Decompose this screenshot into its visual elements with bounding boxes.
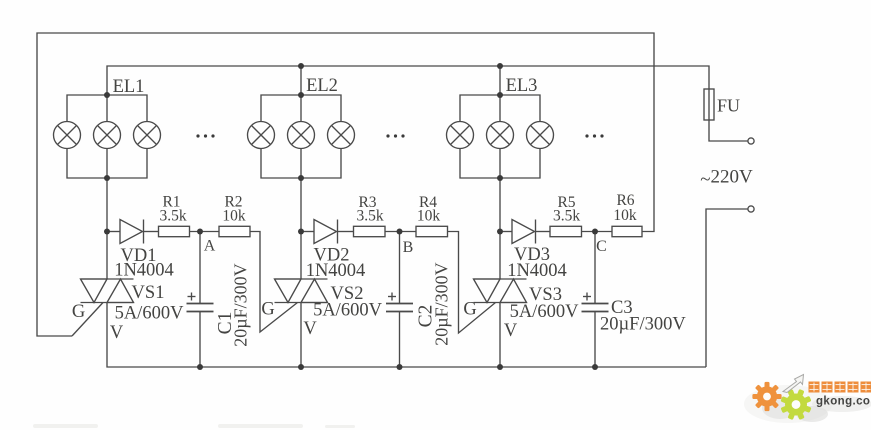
node B junction (397, 229, 403, 235)
svg-text:gkong.com: gkong.com (816, 396, 871, 408)
wire VS1 gate diagonal (72, 303, 103, 337)
wire R5 to node C (582, 231, 613, 233)
lamp group EL3 top bus (460, 95, 540, 122)
svg-text:5A/600V: 5A/600V (510, 302, 580, 322)
triac VS1 (81, 278, 134, 280)
svg-text:1N4004: 1N4004 (114, 261, 174, 281)
wire EL3 feed (499, 66, 501, 122)
junction EL3 feed (497, 63, 503, 69)
junction VS2 rail (298, 364, 304, 370)
lamp EL1a (54, 122, 81, 149)
dots after EL2 (386, 134, 389, 137)
wire VS3 to rail (499, 303, 501, 368)
wire inner top feed (107, 66, 709, 95)
node C junction (592, 229, 598, 235)
resistor R2 (219, 226, 250, 236)
lamp EL3a (447, 122, 474, 149)
lamp EL3c (527, 122, 554, 149)
svg-text:5A/600V: 5A/600V (115, 304, 185, 324)
junction C2 bottom (397, 364, 403, 370)
wire EL1 vertical upper (106, 95, 108, 122)
svg-text:V: V (303, 319, 317, 339)
lamp group EL2 top bus (261, 95, 341, 122)
wire R2 output to VS2 gate (250, 232, 298, 333)
junction VS3 rail (497, 364, 503, 370)
svg-text:C: C (596, 238, 607, 255)
resistor R4 (416, 226, 448, 236)
svg-text:G: G (261, 300, 274, 320)
junction C1 bottom (197, 364, 203, 370)
lamp EL1c (134, 122, 161, 149)
dots after EL1 (196, 134, 199, 137)
diode VD1 (120, 220, 143, 244)
capacitor C2 (399, 232, 401, 304)
junction EL3 top (497, 92, 503, 98)
junction EL1 bottom (104, 175, 110, 181)
junction EL2 top (298, 92, 304, 98)
wire branch 1 (107, 231, 120, 233)
svg-text:1N4004: 1N4004 (306, 261, 366, 281)
resistor R3 (354, 226, 386, 236)
junction branch 2 (298, 229, 304, 235)
fuse FU (704, 89, 714, 120)
lamp EL2b (288, 122, 315, 149)
wire R4 output to VS3 gate (448, 232, 496, 334)
triac VS3 (474, 278, 527, 280)
lamp group EL2 bottom bus (261, 149, 341, 179)
svg-text:20µF/300V: 20µF/300V (600, 315, 686, 335)
lamp EL3b (487, 122, 514, 149)
lamp group EL1 bottom bus (67, 149, 147, 179)
resistor R6 (612, 226, 642, 236)
lamp group EL1 top bus (67, 95, 147, 122)
capacitor C1 (199, 232, 201, 304)
wire VS2 to rail (300, 303, 302, 368)
svg-text:G: G (72, 302, 85, 322)
wire lower terminal return (706, 209, 748, 367)
wire branch 3 (500, 231, 512, 233)
wire EL3 vertical to triac VS3 (499, 149, 501, 280)
lamp group EL3 bottom bus (460, 149, 540, 179)
junction EL1 top (104, 92, 110, 98)
svg-text:EL1: EL1 (113, 77, 145, 97)
svg-text:V: V (504, 321, 518, 341)
svg-text:20µF/300V: 20µF/300V (432, 262, 452, 345)
svg-text:EL2: EL2 (306, 76, 338, 96)
svg-text:VS1: VS1 (132, 283, 165, 303)
wire branch 2 (301, 231, 314, 233)
wire R1 to node A (190, 231, 220, 233)
svg-text:10k: 10k (613, 207, 637, 224)
svg-text:3.5k: 3.5k (159, 208, 186, 225)
svg-text:5A/600V: 5A/600V (313, 301, 383, 321)
node A junction (197, 229, 203, 235)
terminal upper (748, 138, 754, 144)
junction branch 3 (497, 229, 503, 235)
diode VD2 (314, 220, 337, 244)
diode VD3 (512, 220, 535, 244)
terminal lower (748, 206, 754, 212)
wire R3 to node B (385, 231, 416, 233)
junction EL2 bottom (298, 175, 304, 181)
junction C3 bottom (592, 364, 598, 370)
resistor R5 (550, 226, 582, 236)
svg-text:20µF/300V: 20µF/300V (231, 263, 251, 346)
lamp EL2c (328, 122, 355, 149)
capacitor C3 (594, 232, 596, 304)
wire EL2 feed (300, 66, 302, 122)
svg-text:B: B (403, 239, 414, 256)
lamp EL2a (248, 122, 275, 149)
wire EL1 vertical to triac VS1 (106, 149, 108, 280)
svg-text:10k: 10k (222, 208, 246, 225)
svg-text:EL3: EL3 (506, 76, 538, 96)
svg-text:3.5k: 3.5k (553, 208, 580, 225)
decorative faint scan smudges (33, 424, 355, 428)
resistor R1 (159, 226, 190, 236)
dots after EL3 (585, 134, 588, 137)
junction EL3 bottom (497, 175, 503, 181)
svg-text:1N4004: 1N4004 (507, 261, 567, 281)
junction branch 1 (104, 229, 110, 235)
wire EL2 vertical to triac VS2 (300, 149, 302, 280)
wire fuse to upper terminal (709, 120, 748, 141)
svg-text:G: G (463, 300, 476, 320)
svg-text:~220V: ~220V (700, 167, 753, 191)
wire bottom rail (107, 303, 706, 368)
lamp EL1b (94, 122, 121, 149)
svg-text:FU: FU (717, 96, 740, 116)
junction EL2 feed (298, 63, 304, 69)
svg-text:V: V (110, 323, 124, 343)
svg-text:3.5k: 3.5k (356, 208, 383, 225)
wire top border (R6 output loop to VS1 gate) (37, 33, 654, 336)
svg-text:A: A (204, 238, 216, 255)
triac VS2 (275, 278, 328, 280)
svg-text:10k: 10k (417, 208, 441, 225)
